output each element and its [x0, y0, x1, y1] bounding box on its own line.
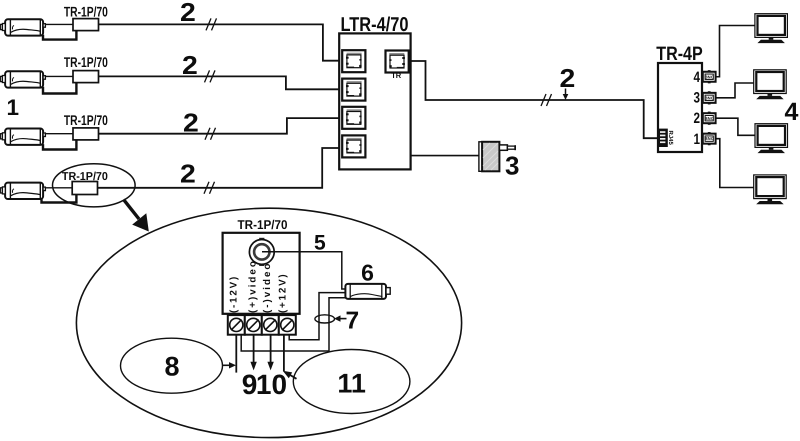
wire terminal4 down [283, 335, 285, 372]
svg-text:4: 4 [785, 98, 799, 126]
svg-text:LTR-4/70: LTR-4/70 [341, 14, 409, 36]
hub jack TR (output) [386, 51, 409, 73]
terminal screw 3 [262, 315, 279, 335]
svg-text:3: 3 [505, 151, 519, 181]
wire plug to +12V terminal [289, 293, 345, 340]
balun B3 [73, 128, 99, 140]
svg-text:TR-4P: TR-4P [656, 43, 703, 65]
monitor M4 [754, 175, 787, 204]
camera CAM4 [0, 183, 45, 199]
BNC output 4 [703, 70, 716, 83]
power supply (item 3) [479, 142, 515, 172]
svg-text:2: 2 [180, 159, 196, 189]
svg-text:2: 2 [183, 107, 199, 137]
terminal screw 1 [228, 315, 245, 335]
BNC output 3 [703, 91, 716, 104]
svg-text:TR-1P/70: TR-1P/70 [64, 54, 108, 70]
wire row1 to hub jack1 [99, 24, 341, 60]
wire coax from BNC to plug (5) [262, 252, 345, 289]
svg-text:(+)video: (+)video [247, 259, 258, 313]
svg-text:2: 2 [182, 50, 198, 80]
wire terminal3 down with arrow [267, 335, 273, 371]
balun B1 [73, 19, 99, 31]
wire CAM1 to balun [45, 23, 73, 25]
wire terminal2 down with arrow [250, 335, 256, 371]
svg-text:3: 3 [694, 90, 701, 107]
wire BNC2 to monitor3 [716, 118, 755, 135]
svg-text:6: 6 [361, 260, 374, 286]
balun B4 [72, 182, 97, 195]
svg-text:TR-1P/70: TR-1P/70 [64, 112, 108, 128]
svg-text:(+12V): (+12V) [278, 273, 289, 313]
monitor M1 [755, 14, 788, 43]
wire BNC3 to monitor2 [716, 83, 754, 98]
BNC output 2 [703, 112, 716, 125]
cable-break slash row2 [205, 70, 216, 82]
wire CAM2 power (bottom) [43, 83, 76, 94]
cable-break slash row3 [205, 128, 216, 140]
svg-text:TR: TR [391, 71, 402, 80]
monitor M3 [755, 124, 788, 153]
svg-text:1: 1 [694, 131, 701, 148]
hub jack 1 [342, 50, 365, 72]
svg-text:TR-1P/70: TR-1P/70 [62, 171, 108, 183]
wire row2 to hub jack2 [99, 76, 341, 89]
svg-text:RJ45: RJ45 [667, 131, 674, 146]
monitor M2 [754, 70, 787, 99]
cable-break slash row1 [206, 18, 217, 30]
camera CAM2 [0, 71, 45, 87]
BNC output 1 [703, 132, 716, 145]
svg-text:5: 5 [314, 232, 326, 255]
wire CAM3 to balun [45, 133, 73, 135]
svg-text:7: 7 [345, 308, 359, 335]
svg-text:1: 1 [7, 95, 20, 120]
wire plug to -12V terminal [241, 298, 345, 351]
callout ellipse 8 [121, 338, 223, 393]
wire CAM4 to balun [45, 187, 72, 189]
svg-text:2: 2 [560, 63, 576, 93]
terminal screw 4 [279, 315, 296, 335]
hub jack 4 [342, 135, 365, 157]
detail zoom ellipse [76, 208, 461, 437]
wire hub TR to TR-4P [409, 61, 658, 138]
callout ellipse 11 [293, 350, 410, 414]
ellipse highlight around balun B4 [53, 164, 136, 207]
receiver TR-4P box [658, 63, 702, 152]
wire CAM4 power (bottom) [42, 195, 77, 203]
hub jack 2 [342, 79, 365, 101]
svg-text:11: 11 [337, 369, 366, 399]
cable loop (7) [315, 315, 335, 323]
svg-text:8: 8 [164, 351, 179, 381]
wire row4 to hub jack4 [98, 148, 341, 188]
balun B2 [73, 71, 99, 83]
terminal screw 2 [245, 315, 262, 335]
balun detail box [223, 233, 300, 314]
wire terminal1 down [235, 335, 237, 373]
svg-text:10: 10 [256, 369, 287, 400]
cable-break slash row4 [204, 182, 215, 194]
arrow from 11 to wire [283, 371, 297, 379]
arrow from highlight to detail ellipse [124, 200, 149, 232]
arrow to loop 7 [334, 315, 347, 321]
svg-text:TR-1P/70: TR-1P/70 [64, 3, 108, 19]
wire CAM1 power (bottom) [43, 31, 76, 40]
cable-break slash main link [541, 94, 552, 106]
wire CAM2 to balun [45, 75, 73, 77]
svg-text:(-12V): (-12V) [228, 275, 239, 313]
camera CAM1 [0, 19, 45, 35]
hub jack 3 [342, 107, 365, 129]
svg-text:TR-1P/70: TR-1P/70 [238, 217, 288, 232]
svg-text:2: 2 [694, 110, 701, 127]
camera CAM3 [0, 129, 45, 145]
arrow from label 2 to wire [563, 89, 569, 101]
svg-text:(-)video: (-)video [262, 262, 273, 313]
wire BNC4 to monitor1 [716, 26, 755, 77]
svg-text:4: 4 [694, 69, 701, 86]
BNC socket detail [249, 238, 274, 266]
arrow from 8 to wire [223, 362, 237, 368]
DC plug (item 6) [345, 284, 390, 299]
svg-text:2: 2 [180, 0, 196, 27]
wire hub to power supply [410, 155, 479, 157]
hub LTR-4/70 box [339, 33, 410, 169]
wire BNC1 to monitor4 [716, 139, 754, 188]
RJ45 input connector [659, 129, 668, 147]
wire CAM3 power (bottom) [43, 140, 76, 150]
wire row3 to hub jack3 [99, 118, 341, 134]
